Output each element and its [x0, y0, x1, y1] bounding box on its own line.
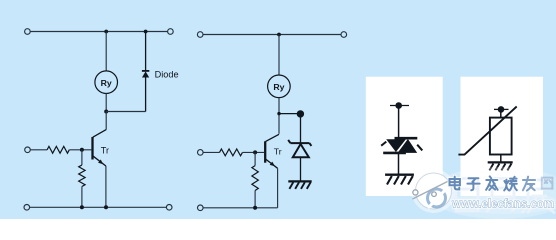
base bar — [264, 141, 266, 162]
relay coil Ry (circuit2) — [268, 75, 291, 98]
terminal: circuit2 top-left — [197, 32, 203, 38]
varistor RV body — [490, 118, 512, 155]
wire: TVS bottom lead — [398, 153, 400, 175]
resistor R3 (base series, zigzag) — [220, 149, 243, 156]
junction: top rail / relay branch — [277, 33, 281, 37]
wire: pulldown bottom lead — [254, 191, 256, 208]
svg-text:Ry: Ry — [101, 78, 112, 88]
wire: emitter vertical — [277, 168, 279, 208]
base bar — [91, 137, 93, 160]
emitter arrow — [98, 160, 103, 165]
wire: emitter vertical — [105, 166, 107, 207]
terminal: circuit2 top-right — [341, 32, 347, 38]
collector diagonal — [265, 134, 279, 141]
watermark big outline glyph: chen — [523, 180, 555, 213]
node: varistor top terminal dot — [498, 106, 505, 113]
wire: node to diode bottom — [106, 111, 145, 113]
wire: relay bottom lead — [278, 98, 280, 134]
node: TVS top terminal crossbar — [390, 105, 409, 107]
collector diagonal — [93, 130, 106, 138]
terminal: circuit1 bottom-right — [166, 205, 172, 211]
svg-text:Tr: Tr — [274, 146, 282, 156]
emitter diagonal — [93, 156, 106, 166]
wire: zener top lead — [300, 114, 302, 143]
svg-text:Tr: Tr — [101, 145, 109, 155]
wire: node to zener — [279, 113, 300, 115]
varistor diagonal stroke — [458, 107, 516, 155]
resistor R1 (base series, zigzag) — [47, 146, 69, 153]
watermark row1 glow — [450, 176, 536, 190]
terminal: circuit1 base input — [25, 147, 31, 153]
transistor Tr (circuit1) — [93, 130, 107, 166]
junction: base / pulldown resistor — [80, 148, 84, 152]
watermark big outline glyph: ri — [456, 179, 478, 212]
junction: collector node — [277, 112, 280, 115]
wire: relay top lead — [105, 32, 107, 71]
junction: pulldown / bottom rail — [253, 206, 257, 210]
emitter arrow — [270, 162, 275, 167]
wire: pulldown top lead — [254, 152, 256, 165]
svg-text:Ry: Ry — [273, 82, 284, 92]
wire: diode branch lower lead — [145, 77, 147, 112]
watermark haze — [428, 167, 556, 219]
svg-text:Diode: Diode — [155, 69, 179, 79]
wire: TVS top lead — [398, 106, 400, 140]
terminal: circuit2 bottom-left — [198, 205, 204, 211]
wire: varistor bottom lead — [500, 155, 502, 163]
wire: base input lead — [203, 151, 219, 153]
wire: resistor to base — [243, 151, 265, 153]
wire: circuit1 top rail — [30, 31, 167, 33]
ground: box1 — [385, 175, 414, 185]
wire: circuit1 bottom rail — [30, 206, 167, 208]
relay coil Ry (circuit1) — [95, 71, 118, 94]
watermark row1: dian zi fa shao you — [450, 176, 553, 190]
wire: collector lead vertical — [105, 112, 107, 130]
svg-text:www.elecfans.com: www.elecfans.com — [451, 196, 554, 210]
wire: base input lead — [30, 149, 47, 151]
resistor R4 (pulldown, vertical zigzag) — [252, 166, 258, 191]
wire: varistor top lead — [500, 109, 502, 117]
junction: relay/diode/collector node — [104, 110, 108, 114]
diode D (flyback) — [142, 71, 149, 78]
junction: pulldown / bottom rail — [80, 205, 84, 209]
junction: top rail / diode branch — [144, 30, 148, 34]
emitter diagonal — [266, 159, 278, 168]
node: varistor top terminal crossbar — [494, 108, 509, 110]
resistor R2 (base-emitter pulldown, vertical zigzag) — [79, 165, 85, 186]
terminal: circuit1 top-left — [25, 29, 31, 35]
terminal: circuit2 base input — [198, 150, 204, 156]
zener diode ZD — [288, 140, 311, 157]
terminal: circuit1 bottom-left — [24, 205, 30, 211]
node: protected output (big dot) — [297, 110, 304, 117]
transistor Tr (circuit2) — [265, 134, 279, 168]
wire: pulldown top lead — [81, 150, 83, 165]
panel: box1 — [366, 77, 443, 196]
watermark logo circle — [413, 173, 457, 209]
wire: diode branch upper lead — [145, 32, 147, 72]
panel: box2 — [461, 77, 544, 196]
wire: relay bottom lead — [105, 94, 107, 112]
ground: circuit2 — [288, 181, 311, 189]
wire: zener bottom lead — [300, 157, 302, 181]
junction: base / pulldown — [253, 150, 257, 154]
junction: emitter / bottom rail — [104, 205, 108, 209]
watermark big outline glyph: yue — [487, 179, 514, 212]
terminal: circuit1 top-right — [168, 29, 174, 35]
junction: top rail / relay branch — [104, 30, 108, 34]
wire: circuit2 bottom rail — [203, 207, 278, 209]
wire: pulldown bottom lead — [81, 187, 83, 208]
wire: resistor to base — [69, 149, 91, 151]
wire: circuit2 top rail — [203, 34, 341, 36]
wire: relay top lead — [278, 35, 280, 76]
ground: box2 — [488, 162, 513, 170]
node: TVS top terminal dot — [395, 102, 402, 109]
TVS bidirectional zener — [381, 138, 422, 153]
